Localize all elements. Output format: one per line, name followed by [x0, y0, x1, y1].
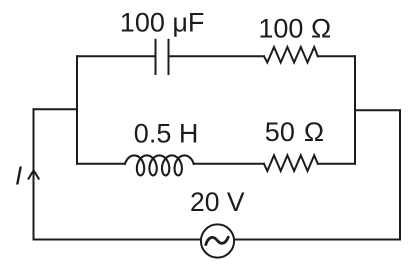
wire right inner vertical [354, 56, 356, 164]
wire left step [34, 108, 78, 110]
AC source V1 circle [201, 224, 234, 257]
wire left outer vertical [33, 109, 35, 239]
resistor R1 100 ohm zigzag [264, 47, 318, 63]
wire left inner vertical [76, 56, 78, 164]
wire bottom [34, 239, 401, 241]
wire top branch right [318, 55, 355, 57]
svg-text:0.5 H: 0.5 H [134, 119, 199, 149]
wire middle branch left [77, 163, 125, 165]
wire right step [355, 109, 400, 111]
svg-text:20 V: 20 V [190, 187, 245, 217]
svg-text:I: I [15, 161, 22, 191]
wire top branch left [77, 55, 155, 57]
capacitor C1 plate left [155, 40, 157, 74]
svg-text:100 μF: 100 μF [120, 7, 205, 37]
AC source sine symbol [206, 237, 228, 244]
resistor R2 50 ohm zigzag [264, 155, 318, 171]
capacitor C1 plate right [168, 40, 170, 74]
current arrow head [28, 170, 38, 179]
wire middle branch mid [194, 163, 264, 165]
svg-text:100 Ω: 100 Ω [258, 14, 331, 44]
svg-text:50 Ω: 50 Ω [265, 117, 324, 147]
wire right outer vertical [399, 110, 401, 239]
inductor L1 coil [125, 155, 194, 175]
wire top branch mid [170, 55, 265, 57]
wire middle branch right [318, 163, 355, 165]
